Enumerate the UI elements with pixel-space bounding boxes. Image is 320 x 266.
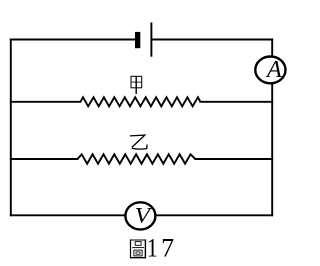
svg-text:A: A (265, 56, 283, 83)
svg-text:7: 7 (161, 233, 174, 262)
svg-text:V: V (135, 204, 153, 228)
svg-text:1: 1 (147, 235, 158, 263)
